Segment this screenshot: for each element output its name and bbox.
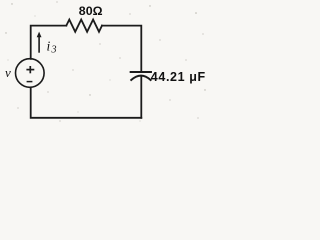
svg-text:44.21 μF: 44.21 μF <box>151 70 206 84</box>
svg-text:v: v <box>5 65 11 80</box>
svg-text:80Ω: 80Ω <box>79 4 103 18</box>
svg-text:i: i <box>47 39 51 54</box>
svg-text:3: 3 <box>51 45 57 56</box>
